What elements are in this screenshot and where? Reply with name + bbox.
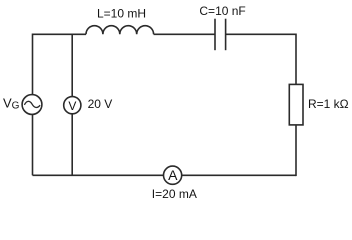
wire top-left segment: [33, 33, 87, 35]
svg-text:V: V: [68, 99, 76, 113]
svg-text:A: A: [168, 167, 178, 183]
svg-text:L=10 mH: L=10 mH: [97, 7, 146, 21]
svg-text:I=20 mA: I=20 mA: [152, 187, 197, 201]
voltmeter V circle: [64, 97, 81, 114]
wire right upper (corner to resistor): [295, 34, 297, 85]
capacitor C plate left: [214, 19, 216, 51]
capacitor C plate right: [225, 19, 227, 51]
wire left lower (source VG to bottom): [32, 114, 34, 175]
wire voltmeter branch upper: [71, 34, 73, 96]
wire inductor-to-capacitor: [154, 33, 215, 35]
source VG sine symbol: [24, 101, 40, 107]
ammeter A circle: [164, 166, 182, 184]
wire right lower (resistor to bottom corner): [295, 125, 297, 176]
wire bottom right (ammeter to corner): [182, 174, 296, 176]
svg-text:VG: VG: [3, 95, 20, 111]
wire left upper (corner to source VG): [32, 34, 34, 95]
resistor R body: [289, 84, 303, 125]
inductor L1 coil: [86, 26, 154, 35]
source VG circle: [22, 95, 42, 115]
wire bottom left (to ammeter): [33, 174, 164, 176]
wire capacitor-to-right-corner: [226, 33, 296, 35]
svg-text:C=10 nF: C=10 nF: [199, 4, 245, 18]
svg-text:R=1 kΩ: R=1 kΩ: [308, 97, 349, 111]
wire voltmeter branch lower: [71, 114, 73, 176]
svg-text:20 V: 20 V: [88, 97, 113, 111]
